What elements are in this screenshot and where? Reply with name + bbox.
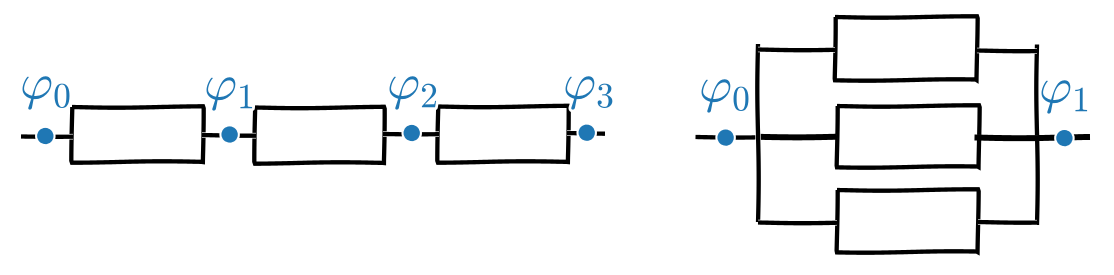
wire: R3 lead out through node phi3 <box>567 131 605 136</box>
wire: right vertical bus joining three branches <box>1036 45 1037 226</box>
wire: R1 to R2 through node phi1 <box>202 133 256 138</box>
node phi3 (blue junction dot, series circuit) <box>579 125 594 140</box>
label varphi_0 (series circuit) <box>23 76 70 109</box>
label varphi_2 (series circuit) <box>390 76 437 109</box>
resistor R4 (parallel top branch, box symbol) <box>835 16 978 80</box>
node phi1 (blue junction dot, series circuit) <box>222 127 237 142</box>
wire: left bus to middle resistor R5 <box>757 135 837 140</box>
label varphi_0 (parallel circuit) <box>702 79 749 112</box>
wire: R2 to R3 through node phi2 <box>383 132 439 136</box>
resistor R1 (series, box symbol) <box>71 106 203 162</box>
node phi0 (blue junction dot, parallel circuit) <box>718 130 733 145</box>
resistor R2 (series, box symbol) <box>254 107 384 164</box>
resistor R5 (parallel middle branch, box symbol) <box>837 105 980 167</box>
resistor R3 (series, box symbol) <box>437 106 568 163</box>
wire: parallel bank to node phi1 lead out <box>975 137 1091 138</box>
wire: left lead through node phi0 to left bus <box>696 135 761 140</box>
label varphi_1 (parallel circuit) <box>1042 80 1088 113</box>
node phi1 (blue junction dot, parallel circuit) <box>1057 131 1072 146</box>
label varphi_3 (series circuit) <box>566 76 613 109</box>
resistor R6 (parallel bottom branch, box symbol) <box>837 189 979 252</box>
wire: top branch left segment <box>758 48 835 53</box>
wire: left vertical bus joining three branches <box>757 44 758 222</box>
node phi2 (blue junction dot, series circuit) <box>404 126 419 141</box>
label varphi_1 (series circuit) <box>207 77 253 110</box>
wire: top branch right segment <box>977 49 1037 54</box>
wire: bottom branch right segment <box>978 220 1037 225</box>
node phi0 (blue junction dot, series circuit) <box>38 129 53 144</box>
wire: left lead through node phi0 into R1 <box>21 135 73 139</box>
wire: bottom branch left segment <box>758 221 837 226</box>
